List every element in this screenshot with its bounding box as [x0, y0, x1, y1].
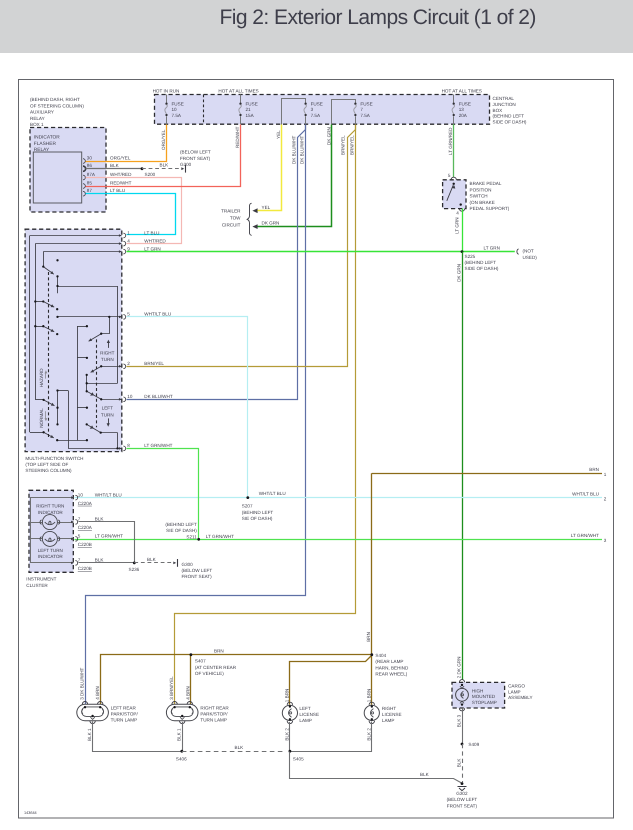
- svg-text:WHT/LT BLU: WHT/LT BLU: [259, 491, 286, 496]
- svg-text:3 BRN/YEL: 3 BRN/YEL: [169, 676, 174, 700]
- svg-text:S236: S236: [129, 567, 140, 572]
- svg-text:HIGH: HIGH: [472, 688, 483, 693]
- svg-text:20A: 20A: [459, 113, 468, 118]
- wire BLK S200 to G300 (dashed): [142, 163, 180, 169]
- svg-text:(NOT: (NOT: [523, 248, 534, 253]
- svg-text:1: 1: [604, 472, 607, 477]
- svg-text:S407: S407: [195, 659, 206, 664]
- svg-text:INDICATOR: INDICATOR: [34, 135, 60, 141]
- svg-text:MULTI-FUNCTION SWITCH: MULTI-FUNCTION SWITCH: [25, 456, 83, 461]
- svg-text:NORMAL: NORMAL: [39, 408, 44, 428]
- wire DK BLU/WHT fuse 3 to MFS pin 10: [127, 125, 306, 400]
- svg-text:BLK: BLK: [95, 558, 105, 563]
- svg-text:(BELOW LEFT: (BELOW LEFT: [180, 150, 211, 155]
- svg-text:SIDE OF DASH): SIDE OF DASH): [465, 266, 499, 271]
- svg-text:ORG/YEL: ORG/YEL: [110, 156, 131, 161]
- wire LT GRN brake switch pin 4 to S225: [455, 209, 463, 252]
- svg-text:LT GRN/WHT: LT GRN/WHT: [95, 534, 123, 539]
- svg-text:LT GRN: LT GRN: [484, 246, 500, 251]
- right turn indicator lamp: [40, 515, 60, 530]
- svg-text:143644: 143644: [24, 811, 37, 815]
- svg-text:7: 7: [78, 558, 81, 563]
- wire DK BLU/WHT fuse 3 to left rear lamp: [86, 125, 306, 705]
- svg-text:RIGHT TURN: RIGHT TURN: [36, 504, 64, 509]
- central junction box (fuse block): [153, 89, 527, 125]
- svg-text:BOX: BOX: [493, 108, 503, 113]
- svg-text:FUSE: FUSE: [459, 102, 471, 107]
- svg-text:3: 3: [604, 538, 607, 543]
- svg-text:RIGHT: RIGHT: [100, 350, 114, 355]
- svg-text:RIGHT: RIGHT: [382, 706, 396, 711]
- svg-text:LT GRN/WHT: LT GRN/WHT: [206, 534, 234, 539]
- svg-text:LT GRN: LT GRN: [144, 246, 160, 251]
- svg-text:RELAY: RELAY: [30, 116, 45, 121]
- wire WHT/RED relay 87A to MFS pin 4: [86, 178, 182, 244]
- wire LT GRN/WHT instrument cluster pin 5 / S211 to right edge pin 3: [75, 539, 603, 541]
- svg-text:7.5A: 7.5A: [311, 113, 321, 118]
- svg-text:LEFT: LEFT: [102, 406, 113, 411]
- svg-text:SIDE OF DASH): SIDE OF DASH): [493, 119, 527, 124]
- svg-text:(BEHIND LEFT: (BEHIND LEFT: [465, 260, 497, 265]
- svg-text:(BEHIND LEFT: (BEHIND LEFT: [165, 522, 197, 527]
- node S405: [289, 750, 305, 762]
- wire BLK relay pin 86 to S200: [86, 168, 143, 170]
- svg-text:(REAR LAMP: (REAR LAMP: [375, 659, 403, 664]
- node S207: [242, 491, 286, 521]
- svg-text:LEFT TURN: LEFT TURN: [38, 548, 63, 553]
- svg-text:(BEHIND LEFT: (BEHIND LEFT: [493, 114, 525, 119]
- svg-text:BRN: BRN: [589, 467, 599, 472]
- MFS pins 1 4 9 5 2 10 8: [119, 230, 173, 450]
- svg-text:MOUNTED: MOUNTED: [472, 694, 496, 699]
- right license lamp: [364, 689, 401, 724]
- svg-text:C220A: C220A: [78, 525, 93, 530]
- ground G300 (below left front seat): [180, 150, 211, 173]
- svg-text:FUSE: FUSE: [311, 102, 323, 107]
- svg-text:PARK/STOP/: PARK/STOP/: [200, 712, 228, 717]
- wire ORG/YEL fuse10 to relay pin 30: [86, 125, 167, 162]
- svg-text:2 DK GRN: 2 DK GRN: [456, 657, 461, 679]
- svg-text:15A: 15A: [246, 113, 255, 118]
- svg-text:BRN: BRN: [214, 649, 224, 654]
- svg-text:LT BLU: LT BLU: [144, 230, 159, 235]
- svg-text:WHT/LT BLU: WHT/LT BLU: [572, 491, 599, 496]
- svg-text:BLK 3: BLK 3: [456, 714, 461, 727]
- svg-text:9: 9: [127, 246, 130, 251]
- svg-text:FUSE: FUSE: [246, 102, 258, 107]
- svg-text:FRONT SEAT): FRONT SEAT): [447, 803, 478, 808]
- instrument cluster: [29, 490, 74, 572]
- svg-text:G300: G300: [180, 162, 192, 167]
- svg-text:Fig 2: Exterior Lamps Circuit: Fig 2: Exterior Lamps Circuit (1 of 2): [220, 6, 536, 29]
- svg-text:TOW: TOW: [230, 216, 241, 221]
- cargo lamp assembly label: [508, 684, 532, 701]
- svg-text:TURN: TURN: [101, 357, 114, 362]
- right rear park/stop/turn lamp: [166, 676, 229, 724]
- wire BLK right license lamp to S405: [290, 722, 372, 752]
- drawing number: [24, 811, 37, 815]
- svg-text:7.5A: 7.5A: [360, 113, 370, 118]
- svg-text:DK GRN: DK GRN: [456, 264, 461, 282]
- svg-text:PARK/STOP/: PARK/STOP/: [111, 712, 139, 717]
- ground G302 (below left front seat): [447, 782, 478, 808]
- svg-text:DK GRN: DK GRN: [326, 127, 331, 145]
- svg-text:BLK: BLK: [235, 745, 245, 750]
- wire WHT/LT BLU instrument cluster pin 10 / S207 to right edge pin 2: [75, 497, 603, 499]
- svg-text:3 DK BLU/WHT: 3 DK BLU/WHT: [80, 667, 85, 699]
- svg-text:13: 13: [459, 107, 465, 112]
- node S225: [461, 250, 499, 271]
- instrument cluster pins 10 7 5 7: [71, 492, 123, 571]
- svg-text:OF VEHICLE): OF VEHICLE): [195, 671, 224, 676]
- wire BLK stoplamp pin 3 to S409: [456, 708, 462, 744]
- wire BRN right edge pin 1 to S404: [366, 473, 602, 655]
- svg-text:SIE OF DASH): SIE OF DASH): [166, 528, 197, 533]
- svg-text:1 BRN: 1 BRN: [366, 689, 371, 703]
- svg-text:LEFT: LEFT: [299, 706, 310, 711]
- svg-text:FRONT SEAT): FRONT SEAT): [182, 574, 213, 579]
- wire DK GRN S225 to high mounted stoplamp: [456, 252, 462, 680]
- svg-text:3: 3: [311, 107, 314, 112]
- svg-text:BOX 1: BOX 1: [30, 122, 44, 127]
- svg-text:1 BRN: 1 BRN: [285, 689, 290, 703]
- wire BLK S409 to G302 (dashed): [456, 744, 462, 782]
- svg-text:RED/WHT: RED/WHT: [110, 181, 132, 186]
- svg-text:5: 5: [78, 534, 81, 539]
- trailer tow circuit connector: [221, 203, 252, 235]
- svg-text:BLK: BLK: [95, 517, 105, 522]
- svg-text:(BEHIND LEFT: (BEHIND LEFT: [242, 510, 274, 515]
- svg-text:FRONT SEAT): FRONT SEAT): [180, 156, 211, 161]
- svg-text:BRN/YEL: BRN/YEL: [349, 135, 354, 155]
- node S211: [165, 522, 234, 541]
- instrument cluster caption: [26, 577, 56, 588]
- svg-text:ORG/YEL: ORG/YEL: [161, 129, 166, 150]
- svg-text:85: 85: [87, 181, 93, 186]
- svg-text:S404: S404: [375, 653, 386, 658]
- svg-text:10: 10: [172, 107, 178, 112]
- svg-text:2: 2: [604, 497, 607, 502]
- multi-function switch S2: [25, 229, 122, 451]
- fuse 21 15A: [239, 95, 258, 125]
- node S404: [370, 653, 409, 677]
- svg-text:LT GRN/WHT: LT GRN/WHT: [571, 533, 599, 538]
- svg-text:RIGHT REAR: RIGHT REAR: [200, 705, 229, 710]
- svg-text:LAMP: LAMP: [508, 689, 521, 694]
- left license lamp: [282, 689, 319, 724]
- wire BRN/YEL fuse 7 to right rear lamp: [175, 125, 356, 705]
- svg-text:RED/WHT: RED/WHT: [235, 126, 240, 148]
- svg-text:BRN: BRN: [366, 632, 371, 642]
- svg-text:DK BLU/WHT: DK BLU/WHT: [291, 135, 296, 164]
- wire BLK S405 to G302: [290, 752, 463, 784]
- ground G300 (below left front seat) second: [173, 559, 212, 579]
- svg-text:YEL: YEL: [276, 130, 281, 139]
- svg-text:STEERING COLUMN): STEERING COLUMN): [25, 468, 72, 473]
- svg-text:LICENSE: LICENSE: [382, 712, 402, 717]
- svg-text:1: 1: [127, 230, 130, 235]
- svg-text:87: 87: [87, 188, 93, 193]
- left turn indicator lamp: [40, 531, 60, 546]
- svg-text:7: 7: [360, 107, 363, 112]
- svg-text:C220B: C220B: [78, 566, 92, 571]
- svg-text:LICENSE: LICENSE: [299, 712, 319, 717]
- fuse 13 20A: [452, 95, 471, 125]
- svg-text:LT BLU: LT BLU: [110, 188, 125, 193]
- svg-text:REAR WHEEL): REAR WHEEL): [375, 672, 407, 677]
- svg-text:POSITION: POSITION: [470, 187, 492, 192]
- svg-text:YEL: YEL: [262, 205, 271, 210]
- svg-text:SIE OF DASH): SIE OF DASH): [242, 516, 273, 521]
- svg-text:TURN LAMP: TURN LAMP: [111, 718, 138, 723]
- svg-text:BLK: BLK: [110, 163, 120, 168]
- svg-text:BLK: BLK: [456, 758, 461, 768]
- svg-text:LT GRN/WHT: LT GRN/WHT: [144, 443, 172, 448]
- svg-text:S405: S405: [293, 756, 304, 761]
- svg-text:DK BLU/WHT: DK BLU/WHT: [300, 135, 305, 164]
- svg-text:4 BRN: 4 BRN: [95, 686, 100, 700]
- svg-text:AUXILIARY: AUXILIARY: [30, 110, 54, 115]
- wire BRN S407 bus to lamps: [101, 649, 372, 705]
- svg-text:BLK: BLK: [160, 163, 170, 168]
- svg-text:TURN LAMP: TURN LAMP: [200, 718, 227, 723]
- fuse 3 7.5A: [282, 99, 323, 125]
- right edge connector pins 1 2 3: [571, 467, 607, 543]
- svg-text:C220A: C220A: [78, 501, 93, 506]
- wire WHT/LT BLU MFS pin 5 to S207: [127, 317, 248, 498]
- svg-text:STOPLAMP: STOPLAMP: [472, 700, 497, 705]
- high mounted stoplamp (cargo lamp assembly): [452, 680, 505, 711]
- svg-text:PEDAL SUPPORT): PEDAL SUPPORT): [470, 206, 510, 211]
- svg-text:HOT AT ALL TIMES: HOT AT ALL TIMES: [442, 89, 482, 94]
- svg-text:CIRCUIT: CIRCUIT: [222, 223, 241, 228]
- svg-text:DK GRN: DK GRN: [262, 221, 280, 226]
- svg-text:WHT/LT BLU: WHT/LT BLU: [95, 492, 122, 497]
- wire BLK right rear lamp to S406: [176, 722, 182, 751]
- wire BLK left license lamp to S405: [285, 722, 290, 751]
- wire BLK S406 to S405 (dashed): [182, 745, 286, 752]
- svg-text:CLUSTER: CLUSTER: [26, 583, 48, 588]
- svg-text:HARN, BEHIND: HARN, BEHIND: [375, 665, 409, 670]
- auxiliary relay box 1 label: [30, 97, 84, 127]
- svg-text:S225: S225: [465, 254, 476, 259]
- svg-text:BLK: BLK: [420, 772, 430, 777]
- node S406: [176, 750, 187, 762]
- svg-text:(ON BRAKE: (ON BRAKE: [470, 200, 495, 205]
- svg-text:S200: S200: [145, 172, 156, 177]
- svg-text:S207: S207: [242, 504, 253, 509]
- svg-text:4 BRN: 4 BRN: [186, 686, 191, 700]
- left rear park/stop/turn lamp: [77, 667, 139, 723]
- svg-text:INSTRUMENT: INSTRUMENT: [26, 577, 56, 582]
- svg-text:CENTRAL: CENTRAL: [493, 96, 515, 101]
- header title bar: [0, 0, 633, 53]
- svg-text:S406: S406: [176, 756, 187, 761]
- svg-text:G302: G302: [456, 791, 468, 796]
- fuse 7 7.5A: [332, 100, 373, 125]
- relay pins 30 86 87A 85 87: [83, 156, 132, 197]
- svg-text:8: 8: [127, 443, 130, 448]
- wire BRN/YEL fuse 7 to MFS pin 2: [127, 125, 356, 367]
- wire BLK left rear lamp to S406: [87, 722, 181, 752]
- svg-text:WHT/RED: WHT/RED: [110, 172, 132, 177]
- svg-text:(BELOW LEFT: (BELOW LEFT: [182, 568, 213, 573]
- svg-text:7.5A: 7.5A: [172, 113, 182, 118]
- indicator flasher relay U1: [30, 128, 106, 213]
- wire LT BLU relay 87 to MFS pin 1: [86, 194, 176, 235]
- svg-text:LAMP: LAMP: [299, 718, 312, 723]
- wire LT GRN/WHT MFS pin 8 to S211: [127, 449, 199, 540]
- MFS caption: [25, 456, 83, 473]
- svg-text:10: 10: [78, 492, 84, 497]
- brake pedal position switch S1: [443, 173, 510, 216]
- svg-text:S211: S211: [186, 534, 197, 539]
- node S409: [461, 742, 480, 747]
- node S407: [190, 653, 237, 676]
- wire RED/WHT fuse21 to relay pin 85: [86, 125, 241, 187]
- svg-text:FUSE: FUSE: [360, 102, 372, 107]
- svg-text:2: 2: [127, 361, 130, 366]
- connector (not used): [517, 248, 537, 260]
- svg-text:S409: S409: [468, 742, 479, 747]
- svg-text:ASSEMBLY: ASSEMBLY: [508, 695, 532, 700]
- svg-text:BRN/YEL: BRN/YEL: [341, 135, 346, 155]
- svg-text:86: 86: [87, 163, 93, 168]
- svg-text:BRAKE PEDAL: BRAKE PEDAL: [470, 181, 502, 186]
- wire BLK S236 to G300 (dashed): [134, 557, 172, 563]
- svg-text:4: 4: [127, 238, 130, 243]
- svg-text:BLK 1: BLK 1: [87, 728, 92, 741]
- svg-text:TURN: TURN: [101, 412, 114, 417]
- svg-text:10: 10: [127, 394, 133, 399]
- svg-text:LT GRN/RED: LT GRN/RED: [448, 127, 453, 155]
- svg-text:5: 5: [448, 173, 451, 178]
- svg-text:BLK 2: BLK 2: [366, 728, 371, 741]
- svg-text:USED): USED): [523, 255, 538, 260]
- wire YEL fuse 3 to trailer tow: [252, 125, 281, 214]
- svg-text:(TOP LEFT SIDE OF: (TOP LEFT SIDE OF: [25, 462, 68, 467]
- svg-text:FUSE: FUSE: [172, 102, 184, 107]
- svg-text:CARGO: CARGO: [508, 684, 525, 689]
- fuse 10 7.5A: [165, 95, 184, 125]
- svg-text:21: 21: [246, 107, 252, 112]
- svg-text:LEFT REAR: LEFT REAR: [111, 705, 137, 710]
- wire DK GRN fuse 7 to trailer tow: [252, 125, 331, 230]
- wire BLK IC pin 7 C220A to S236: [79, 522, 135, 563]
- svg-text:WHT/RED: WHT/RED: [144, 238, 166, 243]
- svg-text:INDICATOR: INDICATOR: [38, 554, 64, 559]
- wire LT GRN MFS pin 9 to S225 to (not used): [127, 246, 515, 252]
- svg-text:BRN/YEL: BRN/YEL: [144, 361, 164, 366]
- svg-text:C220B: C220B: [78, 542, 92, 547]
- svg-text:LT GRN: LT GRN: [455, 217, 460, 233]
- svg-text:G300: G300: [182, 562, 194, 567]
- svg-text:(AT CENTER REAR: (AT CENTER REAR: [195, 665, 237, 670]
- svg-text:4: 4: [456, 211, 459, 216]
- svg-text:30: 30: [87, 156, 93, 161]
- svg-text:OF STEERING COLUMN): OF STEERING COLUMN): [30, 103, 84, 108]
- node S236: [129, 562, 140, 572]
- svg-text:BLK 2: BLK 2: [285, 728, 290, 741]
- node S200: [141, 167, 156, 177]
- svg-text:(BELOW LEFT: (BELOW LEFT: [447, 797, 478, 802]
- svg-text:FLASHER: FLASHER: [34, 141, 57, 147]
- svg-text:DK BLU/WHT: DK BLU/WHT: [144, 394, 173, 399]
- svg-text:BLK: BLK: [147, 557, 157, 562]
- svg-text:HOT IN RUN: HOT IN RUN: [153, 89, 180, 94]
- svg-text:7: 7: [78, 517, 81, 522]
- wire BLK IC pin 7 C220B to S236: [79, 562, 135, 564]
- svg-text:HOT AT ALL TIMES: HOT AT ALL TIMES: [218, 89, 258, 94]
- svg-text:LAMP: LAMP: [382, 718, 395, 723]
- svg-text:HAZARD: HAZARD: [39, 368, 44, 388]
- svg-text:(BEHIND DASH, RIGHT: (BEHIND DASH, RIGHT: [30, 97, 80, 102]
- svg-text:SWITCH: SWITCH: [470, 194, 488, 199]
- wire LT GRN/RED fuse 13 to brake switch pin 5: [448, 124, 454, 177]
- svg-text:TRAILER: TRAILER: [221, 209, 241, 214]
- svg-text:87A: 87A: [87, 172, 96, 177]
- svg-text:JUNCTION: JUNCTION: [493, 102, 516, 107]
- svg-text:BLK 1: BLK 1: [176, 728, 181, 741]
